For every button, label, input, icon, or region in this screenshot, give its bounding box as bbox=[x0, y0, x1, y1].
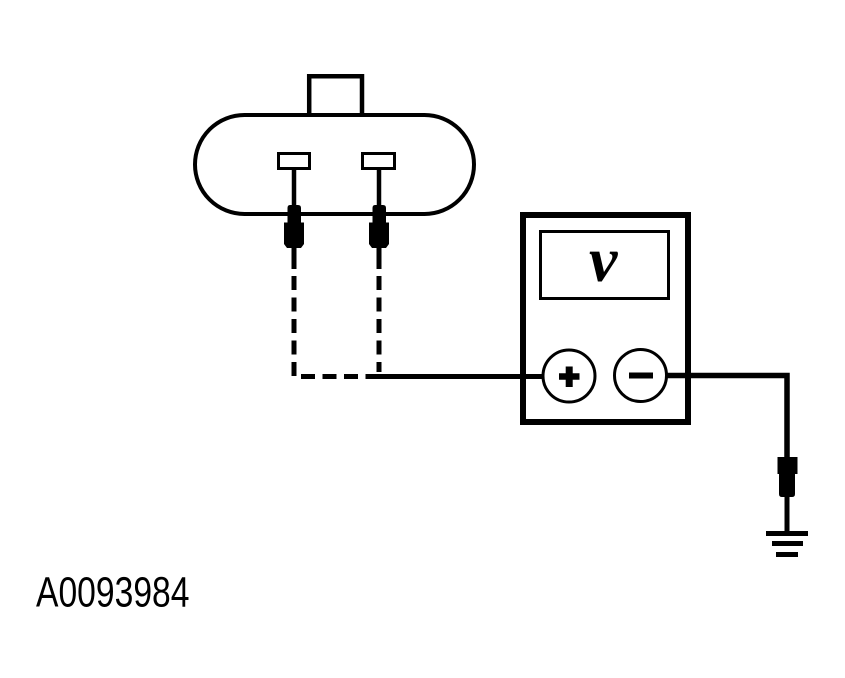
voltmeter display bbox=[541, 232, 669, 299]
plus symbol bbox=[559, 373, 580, 380]
probe tip at pin 2 bbox=[369, 205, 389, 248]
connector C1 body bbox=[195, 115, 474, 214]
wire junction to voltmeter plus bbox=[377, 374, 544, 379]
wire minus jack to ground bbox=[666, 376, 787, 460]
wire stub below tip 2 bbox=[377, 248, 382, 269]
wire pin2 stem bbox=[377, 169, 382, 208]
voltmeter plus jack bbox=[543, 350, 595, 402]
wire pin1 stem bbox=[292, 169, 297, 208]
ground symbol bbox=[766, 531, 808, 536]
dashed test lead from pin 2 bbox=[377, 276, 382, 372]
probe tip at ground lead bbox=[778, 457, 798, 497]
dashed test lead from pin 1 bbox=[294, 276, 377, 377]
connector tab bbox=[309, 76, 362, 113]
svg-text:A0093984: A0093984 bbox=[36, 570, 190, 617]
minus symbol bbox=[629, 373, 653, 379]
wire tip to ground bbox=[785, 497, 790, 533]
wire stub below tip 1 bbox=[292, 248, 297, 269]
svg-text:v: v bbox=[589, 224, 618, 295]
terminal pin 2 bbox=[363, 154, 395, 169]
voltmeter U1 case bbox=[523, 215, 688, 422]
voltmeter minus jack bbox=[615, 350, 667, 402]
probe tip at pin 1 bbox=[284, 205, 304, 248]
terminal pin 1 bbox=[279, 154, 310, 169]
